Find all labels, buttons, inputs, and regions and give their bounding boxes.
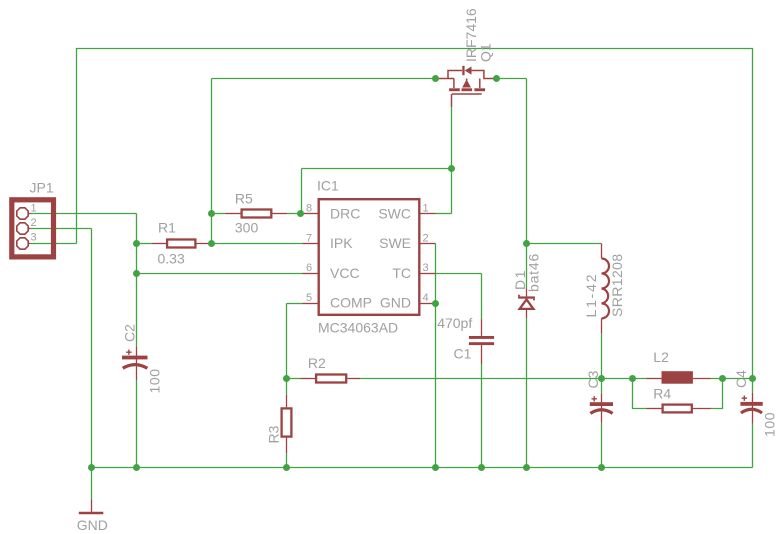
svg-text:JP1: JP1 [30,180,54,196]
svg-text:2: 2 [423,232,430,244]
svg-text:2: 2 [31,217,38,229]
svg-text:8: 8 [306,203,313,215]
svg-text:VCC: VCC [330,265,360,281]
svg-text:R3: R3 [266,425,282,443]
svg-text:SRR1208: SRR1208 [609,253,625,317]
svg-text:100: 100 [147,368,163,393]
svg-text:IPK: IPK [330,235,353,251]
svg-text:IRF7416: IRF7416 [463,8,479,62]
svg-text:C2: C2 [122,324,138,342]
svg-text:R5: R5 [235,191,253,207]
svg-text:470pf: 470pf [437,315,472,331]
svg-text:6: 6 [306,262,313,274]
svg-text:DRC: DRC [330,205,360,221]
svg-text:C4: C4 [733,370,749,388]
svg-text:L1-42: L1-42 [583,273,599,318]
svg-text:L2: L2 [653,349,669,365]
svg-text:1: 1 [423,203,430,215]
svg-text:4: 4 [423,292,430,304]
svg-text:1: 1 [31,203,38,215]
svg-text:5: 5 [306,292,313,304]
svg-text:R2: R2 [308,355,326,371]
svg-text:GND: GND [77,517,108,533]
svg-text:C3: C3 [585,370,601,388]
svg-text:MC34063AD: MC34063AD [318,319,398,335]
svg-text:0.33: 0.33 [158,251,185,267]
svg-text:R1: R1 [158,220,176,236]
svg-text:7: 7 [306,232,313,244]
svg-text:100: 100 [762,412,778,437]
svg-text:300: 300 [235,219,259,235]
svg-text:SWE: SWE [379,235,411,251]
svg-text:COMP: COMP [330,295,372,311]
svg-text:bat46: bat46 [526,253,542,292]
svg-text:IC1: IC1 [317,178,339,194]
svg-text:GND: GND [380,295,411,311]
svg-text:3: 3 [423,262,430,274]
svg-text:C1: C1 [454,345,472,361]
svg-text:3: 3 [31,231,38,243]
svg-text:R4: R4 [653,386,671,402]
svg-text:Q1: Q1 [478,43,494,62]
svg-text:TC: TC [392,265,411,281]
svg-text:SWC: SWC [378,205,411,221]
